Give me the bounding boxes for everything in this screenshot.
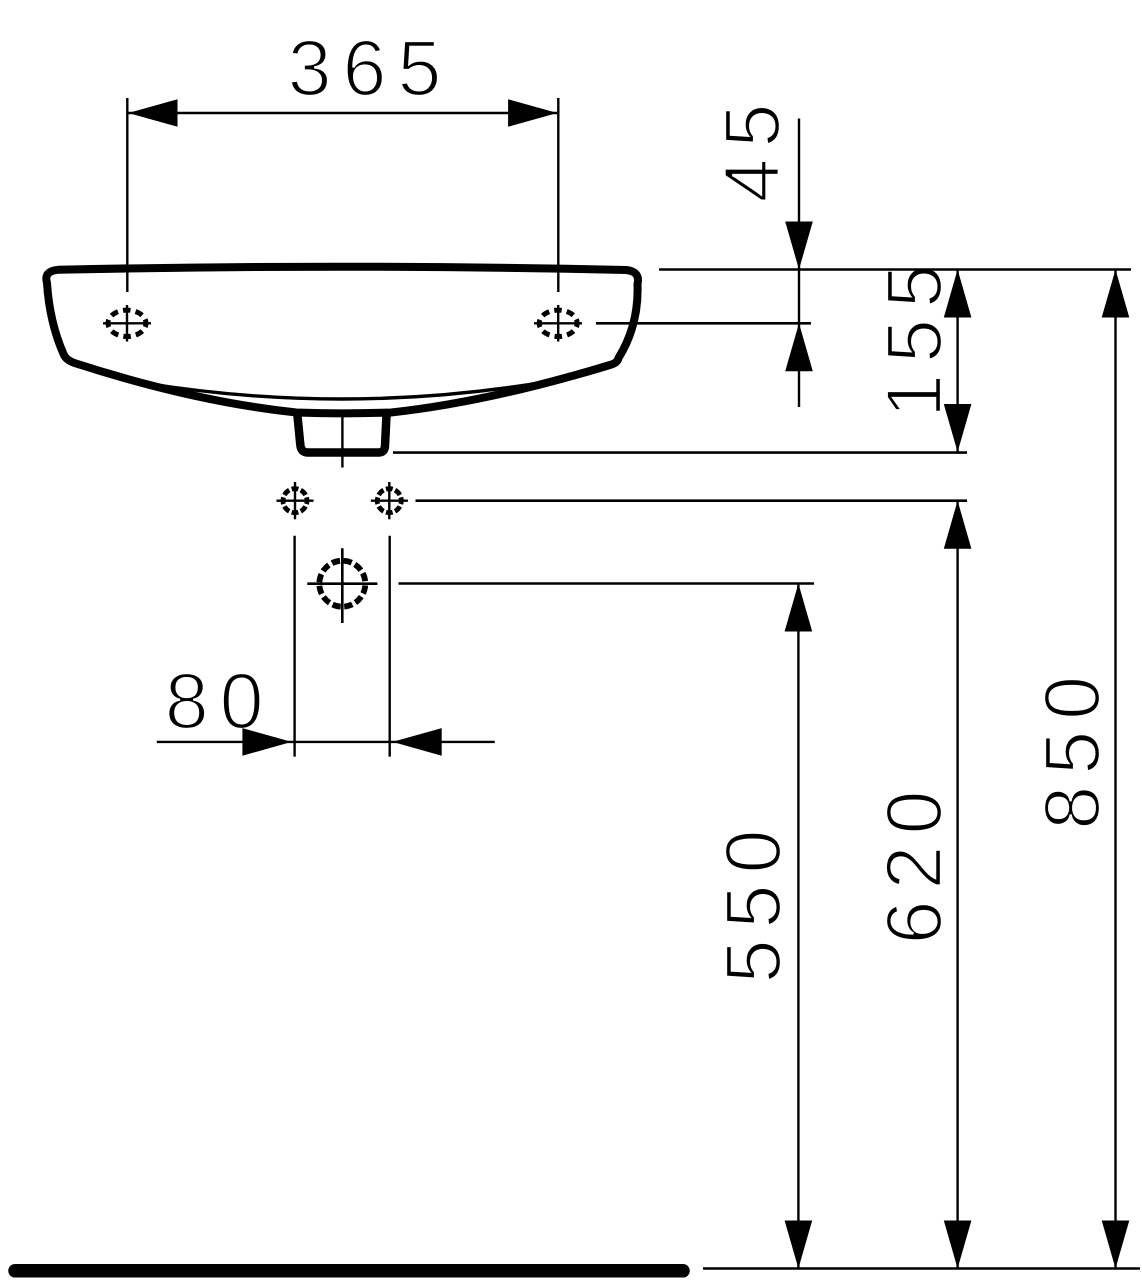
- dimension 155 (top rim to outlet bottom): [944, 270, 972, 453]
- svg-text:620: 620: [869, 780, 958, 945]
- waste pipe hole large (dashed circle with centerlines): [307, 548, 377, 623]
- dimension 45 (top rim to fixing holes): [785, 119, 813, 408]
- svg-text:45: 45: [707, 93, 796, 203]
- svg-text:850: 850: [1027, 665, 1116, 830]
- outlet centerline: [341, 415, 343, 468]
- reference line: fixing hole level: [596, 322, 811, 325]
- reference line: waste pipe hole level: [399, 582, 815, 585]
- dimension 80 (small wall hole spacing): [157, 536, 495, 757]
- dimension 365 (fixing hole spacing): [127, 98, 558, 292]
- svg-text:80: 80: [165, 656, 275, 745]
- floor line thick bar: [15, 1264, 683, 1278]
- svg-text:550: 550: [708, 819, 797, 984]
- dimension 620 (floor to small wall holes): [944, 501, 972, 1269]
- drain outlet spigot: [297, 413, 386, 453]
- dimension 850 (floor to basin top rim): [1102, 270, 1130, 1269]
- wall fixing hole small left (dashed circle with centerlines): [277, 482, 314, 519]
- reference line: basin top rim level: [659, 268, 1131, 271]
- basin inner rim line: [132, 381, 551, 399]
- reference line: small wall hole level: [416, 499, 968, 502]
- floor line thin extension: [703, 1267, 1140, 1270]
- washbasin body outline (front elevation): [46, 267, 638, 414]
- dimension 550 (floor to waste pipe hole): [785, 584, 813, 1269]
- svg-text:365: 365: [288, 23, 453, 112]
- wall fixing hole small right (dashed circle with centerlines): [371, 482, 408, 519]
- svg-text:155: 155: [869, 253, 958, 418]
- reference line: outlet bottom level: [393, 451, 967, 454]
- fixing hole left (dashed ellipse with centerlines): [103, 305, 151, 342]
- fixing hole right (dashed ellipse with centerlines): [534, 305, 582, 342]
